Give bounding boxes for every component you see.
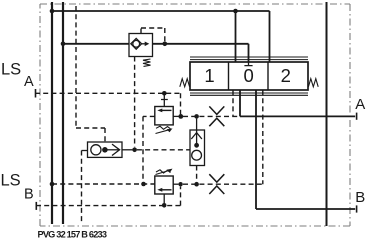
section boundary chain border xyxy=(40,4,350,226)
svg-text:B: B xyxy=(355,189,365,206)
wire T gallery vertical xyxy=(62,2,64,224)
svg-text:A: A xyxy=(24,74,34,90)
port B tick xyxy=(356,205,358,212)
wire LS B port line dashed xyxy=(36,187,181,206)
main proportional valve body U1 xyxy=(190,62,308,90)
wire left pilot supply dashed xyxy=(75,6,77,128)
wire top pilot line xyxy=(52,11,270,62)
svg-text:0: 0 xyxy=(244,65,254,86)
wire pilot valve B output xyxy=(173,183,178,185)
svg-text:A: A xyxy=(355,96,365,113)
pressure compensator check valve xyxy=(129,34,153,57)
wire pilot valve A output xyxy=(173,115,178,117)
wire tank line right vertical xyxy=(326,2,328,226)
port A tick xyxy=(356,113,358,120)
LS B port tick xyxy=(35,202,37,210)
wire shuttle bottom stem dashed xyxy=(196,166,198,182)
wire valve pilot B dashed xyxy=(262,90,264,184)
node drain junction xyxy=(162,203,167,208)
node shuttle top junction xyxy=(194,114,199,119)
valve stroke limit lines xyxy=(190,57,308,95)
svg-text:PVG 32 157 B 6233: PVG 32 157 B 6233 xyxy=(38,229,107,239)
wire flow control left port xyxy=(82,150,88,152)
shock valve plug B xyxy=(209,174,224,194)
wire P gallery vertical xyxy=(51,2,53,224)
pilot pressure reducing valve A xyxy=(155,107,173,125)
wire LS B gallery right dashed xyxy=(183,183,263,185)
pilot pressure reducing valve B xyxy=(155,176,173,194)
wire LS A gallery xyxy=(35,93,181,114)
wire valve pilot A dashed xyxy=(232,90,234,116)
wire LS drop line dashed xyxy=(81,151,83,224)
wire pilot valve A left port dashed xyxy=(143,116,155,184)
wire work port B xyxy=(256,90,355,209)
node shuttle bottom junction xyxy=(194,182,199,187)
wire LS output xyxy=(122,149,132,151)
pilot valve B adjustable spring xyxy=(156,170,171,173)
node LS output junction xyxy=(132,148,137,153)
valve centering spring left xyxy=(180,79,190,87)
node compensator pilot junction xyxy=(163,42,168,47)
valve centering spring right xyxy=(308,79,318,87)
wire work port A xyxy=(240,90,355,116)
LS flow control valve xyxy=(88,142,123,157)
wire LS B gallery dashed xyxy=(52,183,155,185)
wire pressure line to compensator xyxy=(63,44,249,62)
node mid-top junction xyxy=(233,9,238,14)
wire shuttle top stem xyxy=(196,119,198,130)
node LS B on P gallery xyxy=(50,182,55,187)
pilot valve A top port xyxy=(161,93,168,106)
node pilot valve A top junction xyxy=(162,91,167,96)
LS shuttle valve xyxy=(190,130,205,166)
wire compensator pilot loop xyxy=(141,28,165,42)
node top-left junction xyxy=(50,9,55,14)
node on T gallery xyxy=(61,42,66,47)
pilot valve A adjustable spring xyxy=(156,126,171,129)
svg-text:LS: LS xyxy=(1,172,21,190)
compensator spring xyxy=(143,59,151,66)
svg-text:LS: LS xyxy=(1,61,21,79)
node output ring A xyxy=(178,114,183,119)
node pilot valve B left junction xyxy=(141,182,146,187)
wire pilot valve B drain stem xyxy=(163,194,165,205)
svg-text:2: 2 xyxy=(281,65,291,86)
wire spool top port xyxy=(235,11,237,62)
wire LS output dashed to shuttle xyxy=(137,149,190,151)
svg-text:B: B xyxy=(24,186,34,202)
wire branch to flow control xyxy=(76,128,105,142)
shock valve plug A xyxy=(209,106,224,126)
LS A port tick xyxy=(35,89,37,98)
svg-text:1: 1 xyxy=(204,65,214,86)
wire compensator drain xyxy=(134,57,136,148)
node output dot B xyxy=(178,182,182,186)
blocked port symbol in cell 0 xyxy=(244,62,252,66)
wire LS shock line A dashed xyxy=(183,115,240,117)
